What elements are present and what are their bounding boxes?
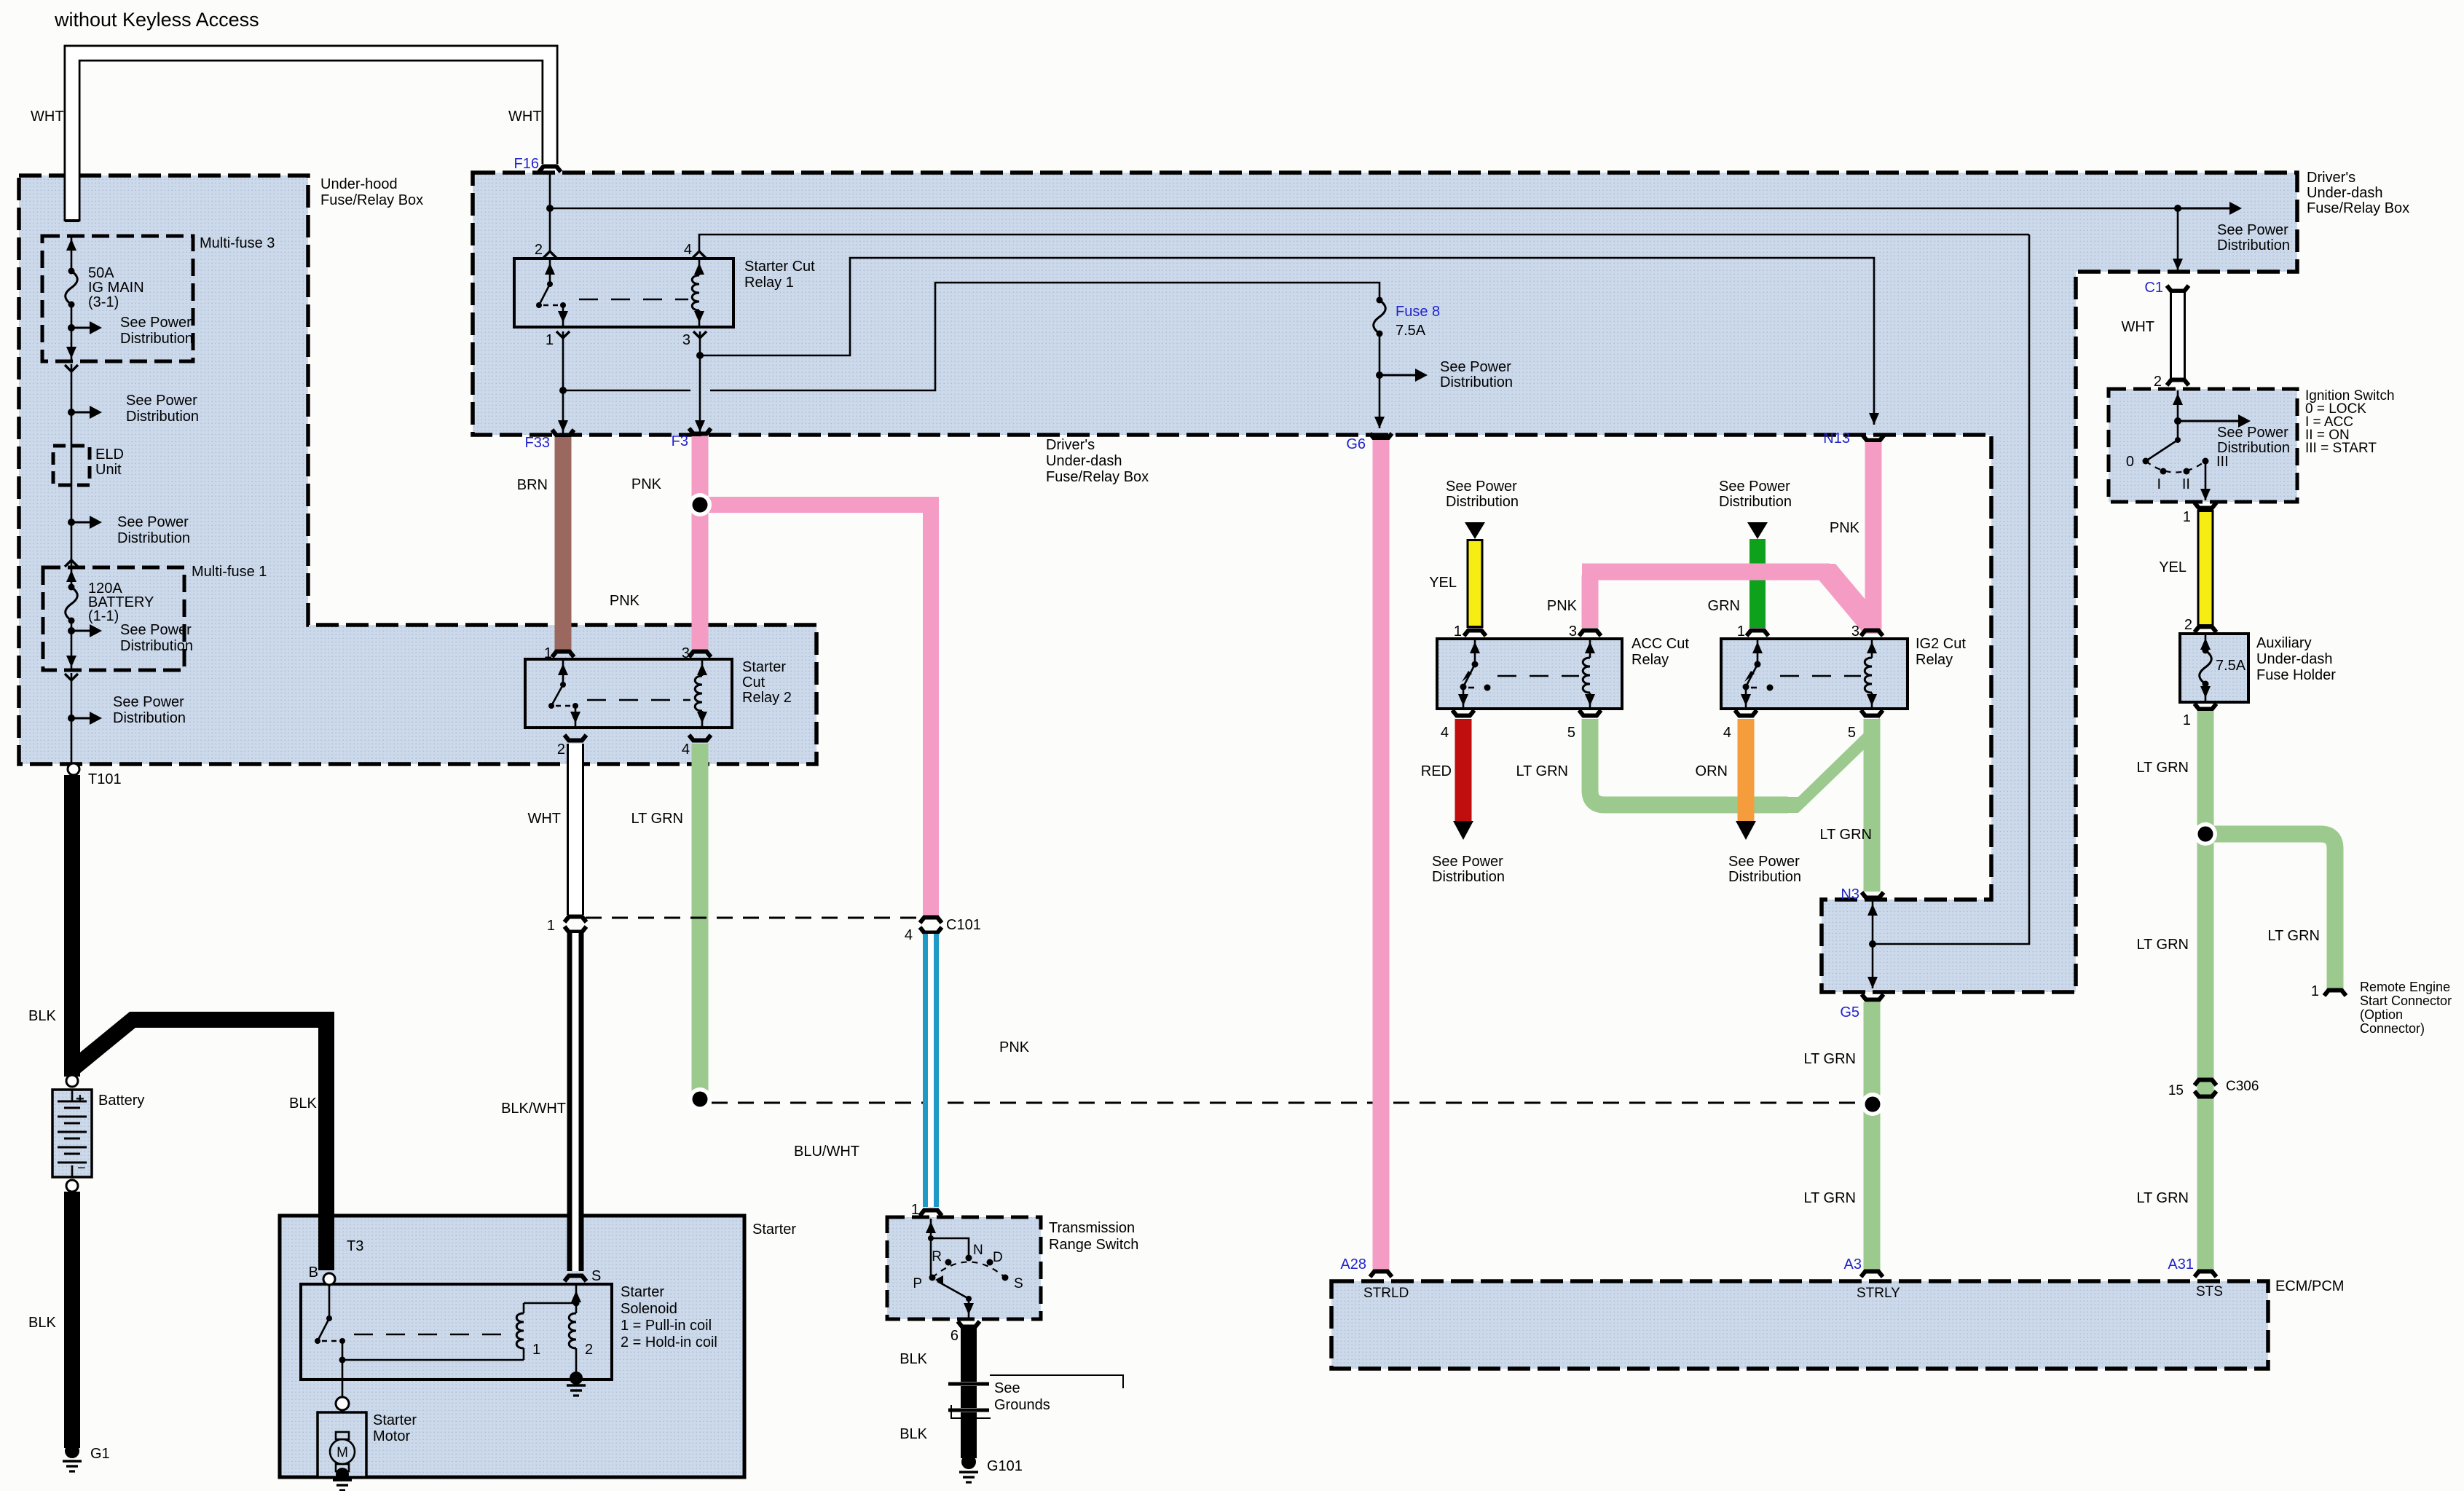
svg-text:D: D [993,1250,1003,1265]
svg-text:Remote Engine: Remote Engine [2360,980,2450,994]
relay2 pin 1 label [544,645,552,661]
wire LT GRN ACC pin5 elbow to IG2 pin5 [1590,717,1880,813]
connector A28 [1340,1256,1392,1277]
svg-text:R: R [932,1249,942,1264]
relay2 pin3 connector [689,652,711,658]
relay2 pin 3 label [682,645,690,661]
svg-text:N13: N13 [1823,430,1850,446]
svg-text:Transmission: Transmission [1049,1220,1135,1236]
svg-text:1: 1 [547,918,555,934]
wire GRN into IG2 pin1 [1749,539,1766,628]
TRS internals [926,1219,1009,1318]
wire Multi-fuse1 to T101 [65,673,78,764]
svg-text:1: 1 [1737,623,1745,640]
junction node on F16 wire [546,205,554,212]
relay2 pin2 connector [564,735,586,741]
wire PNK G6 to A28 [1373,440,1390,1271]
label BLK (TRS lower) [900,1426,927,1442]
IG2 pin 3 label [1851,623,1859,640]
wire WHT relay2 pin2 to C101 [567,744,584,915]
arrow F3 exit [695,420,705,432]
label WHT (right) [508,109,542,125]
svg-text:See: See [994,1380,1020,1396]
Remote Engine Start Connector label [2360,980,2452,1036]
label LT GRN (relay2) [631,811,684,827]
svg-text:See Power: See Power [1446,479,1517,495]
svg-text:LT GRN: LT GRN [2268,928,2321,944]
svg-text:Distribution: Distribution [113,710,186,726]
svg-text:6: 6 [950,1328,959,1344]
svg-text:WHT: WHT [527,811,561,827]
svg-text:Motor: Motor [373,1428,410,1444]
svg-text:Start Connector: Start Connector [2360,994,2452,1008]
label LT GRN (A31 mid) [2137,937,2189,953]
svg-text:4: 4 [684,242,692,258]
svg-text:RED: RED [1421,763,1452,779]
relay1 coil [692,260,704,326]
fuse 120A BATTERY (1-1) [66,567,78,670]
wire N3 to G5 through box [1867,901,1878,988]
relay Starter Cut Relay 1 [514,259,815,327]
label BLU/WHT [794,1144,859,1160]
svg-text:A28: A28 [1340,1256,1366,1272]
svg-text:BRN: BRN [517,477,548,493]
svg-text:IG MAIN: IG MAIN [88,280,144,296]
battery Battery [52,1075,144,1192]
svg-text:Fuse 8: Fuse 8 [1396,304,1440,320]
connector aux pin 2 [2195,627,2216,633]
see power distribution below ORN [1728,854,1801,885]
svg-text:+: + [76,1091,84,1107]
svg-text:(1-1): (1-1) [88,608,119,624]
aux fuse 7.5A [2200,635,2246,701]
svg-text:See Power: See Power [1440,359,1511,375]
wire PNK branch ACC pin3 to IG2 pin3 [1582,564,1881,634]
wire LT GRN IG2 pin5 to N3 [1864,719,1881,892]
see power distribution below RED [1432,854,1505,885]
label S terminal [591,1268,601,1284]
svg-text:STRLY: STRLY [1857,1286,1900,1301]
wire BLK branch to starter B [72,1020,326,1270]
svg-text:1: 1 [2183,509,2191,525]
see power distribution arrow (in Multi-fuse 3) [68,315,193,347]
label WHT (relay2) [527,811,561,827]
svg-text:G1: G1 [90,1446,110,1462]
wire ORN IG2 pin4 down [1736,719,1756,840]
svg-text:Distribution: Distribution [1432,869,1505,885]
svg-text:Fuse/Relay Box: Fuse/Relay Box [2307,200,2409,216]
box Starter [280,1216,796,1477]
connector ignition pin 1 [2195,503,2216,508]
svg-text:Starter: Starter [742,659,786,675]
label 1 (C101 WHT) [547,918,555,934]
Driver's Under-dash Fuse/Relay Box label (below left) [1046,437,1149,485]
svg-text:Multi-fuse 1: Multi-fuse 1 [192,564,267,580]
svg-text:Driver's: Driver's [1046,437,1095,453]
IG2 pin 1 label [1737,623,1745,640]
motor ground [333,1468,352,1490]
junction on PNK wire [0,0,1,1]
ACC pin4 connector [1452,710,1474,716]
relay2 pin1 connector [552,652,574,658]
see power distribution arrow (below ELD) [68,514,190,546]
svg-text:1: 1 [1454,623,1462,640]
svg-text:F33: F33 [525,435,550,451]
junction dot aux branch [2194,822,2217,846]
see power distribution arrow (fuse 8) [1376,359,1513,390]
svg-text:2 = Hold-in coil: 2 = Hold-in coil [621,1334,717,1350]
svg-text:2: 2 [535,242,543,258]
junction dot PNK branch [688,493,712,516]
svg-text:N: N [973,1243,983,1258]
wire RED ACC pin4 down [1453,719,1473,840]
svg-text:BLK: BLK [289,1095,317,1112]
svg-text:WHT: WHT [2121,319,2154,335]
connector G6 [1346,433,1392,452]
junction dot LT GRN to dashed [688,1087,712,1111]
solenoid link dashed [354,1334,510,1336]
ACC pin5 connector [1579,710,1601,716]
wire BLK battery to G1 [64,1192,80,1448]
label 1 (TRS) [911,1202,919,1218]
svg-text:G6: G6 [1346,436,1366,452]
wire LT GRN aux to A31 [2197,711,2214,1271]
wire WHT C1 to ignition switch [2170,293,2186,378]
svg-text:Multi-fuse 3: Multi-fuse 3 [200,235,275,251]
wire N3 junction to column riser [1873,235,2029,944]
Ignition Switch label [2305,388,2395,456]
label PNK (mid) [999,1039,1030,1055]
wire BLK into starter box to B [318,1213,334,1270]
svg-text:III = START: III = START [2305,441,2377,456]
Under-hood Fuse/Relay Box label [320,176,423,208]
svg-text:Fuse/Relay Box: Fuse/Relay Box [1046,469,1149,485]
svg-text:Starter Cut: Starter Cut [744,259,815,275]
wire BLK/WHT into starter box to S [567,1213,584,1271]
connector C1 [2144,280,2189,296]
IG2 pin1 connector [1747,631,1768,637]
svg-text:A31: A31 [2168,1256,2194,1272]
relay2 pin4 connector [689,735,711,741]
svg-text:3: 3 [682,645,690,661]
svg-text:B: B [309,1264,318,1280]
connector A3 [1844,1256,1883,1277]
label GRN [1708,598,1740,614]
label BLK (TRS upper) [900,1351,927,1367]
label WHT (C1) [2121,319,2154,335]
svg-text:III: III [2216,454,2229,470]
svg-text:A3: A3 [1844,1256,1862,1272]
svg-text:15: 15 [2168,1083,2184,1098]
relay1 pin 4 label [684,242,692,258]
svg-text:YEL: YEL [2159,559,2186,575]
ACC coil [1583,640,1595,707]
svg-text:7.5A: 7.5A [1396,323,1426,339]
IG2 pin4 connector [1735,710,1757,716]
svg-text:Distribution: Distribution [1446,494,1519,510]
IG2 link dashed [1780,675,1861,677]
ACC pin 4 label [1441,725,1449,741]
junction node above C1 [2174,205,2181,212]
wire BLK TRS to G101 [961,1328,977,1458]
wire WHT loop from Multi-fuse 3 to F16 [65,53,550,221]
node B terminal [309,1264,335,1285]
svg-text:0: 0 [2126,454,2134,470]
svg-text:C306: C306 [2226,1079,2259,1094]
see power distribution arrow (top right) [2178,202,2290,253]
connector TRS pin 1 [920,1211,942,1216]
connector ignition pin 2 [2167,380,2189,386]
see power distribution arrow (below Multi-fuse 1) [68,694,186,726]
label 1 (aux pin1) [2183,712,2191,728]
wire YEL into ACC pin1 [1467,539,1484,628]
wire YEL ignition to aux fuse holder [2197,510,2214,626]
svg-text:S: S [591,1268,601,1284]
relay1 link dashed [579,299,688,301]
relay2 coil [695,661,707,726]
svg-text:T3: T3 [347,1238,363,1254]
ground G101 [959,1455,1023,1482]
svg-text:ACC Cut: ACC Cut [1631,636,1689,652]
wire LT GRN relay2 pin4 down [692,744,709,1093]
svg-text:50A: 50A [88,265,114,281]
label C101 [946,917,981,933]
label BLK (upper) [28,1008,56,1024]
label PNK (above relay 2) [610,593,640,609]
svg-text:1: 1 [532,1342,540,1358]
connector aux pin 1 [2195,704,2216,709]
svg-text:PNK: PNK [1547,598,1578,614]
Auxiliary Under-dash Fuse Holder box [2180,634,2336,702]
relay IG2 Cut Relay box [1721,636,1966,709]
svg-text:Distribution: Distribution [120,331,193,347]
IG2 pin5 connector [1861,710,1883,716]
svg-text:2: 2 [585,1342,593,1358]
IG2 pin 5 label [1848,725,1856,741]
svg-text:(3-1): (3-1) [88,294,119,310]
relay1 pin 2 label [535,242,543,258]
connector C101 on BLU/WHT wire [920,918,942,933]
box Transmission Range Switch [887,1217,1138,1319]
ACC pin1 connector [1464,631,1486,637]
label PNK (below F3) [631,476,662,492]
label 1 (ignition pin1) [2183,509,2191,525]
label LT GRN (remote branch) [2268,928,2321,944]
svg-text:LT GRN: LT GRN [1516,763,1569,779]
svg-text:Connector): Connector) [2360,1021,2425,1036]
connector N13 [1823,430,1884,446]
label PNK (above ACC pin3) [1547,598,1578,614]
ACC pin 5 label [1567,725,1575,741]
relay2 switch [548,661,580,726]
label RED [1421,763,1452,779]
svg-text:See Power: See Power [2217,425,2288,441]
see power distribution (ignition) [2217,425,2290,456]
svg-text:See Power: See Power [1728,854,1800,870]
wire bus y286 to C1 drop [550,208,2178,210]
connector F33 [525,430,574,451]
svg-text:4: 4 [905,927,913,943]
wire relay1 pin4 bus to column riser [693,235,2029,258]
IG2 switch [1741,640,1774,707]
svg-text:Under-dash: Under-dash [2307,185,2383,201]
Under-hood Fuse/Relay Box (container) [19,176,816,764]
dashed crossover line to G5 wire [712,1102,1859,1104]
svg-text:(Option: (Option [2360,1007,2403,1022]
label WHT (left) [31,109,64,125]
svg-text:3: 3 [1851,623,1859,640]
svg-text:Distribution: Distribution [1440,374,1513,390]
svg-text:Auxiliary: Auxiliary [2256,635,2312,651]
connector TRS pin 6 [958,1321,980,1327]
svg-text:Unit: Unit [95,462,122,478]
wire C1 drop [2173,208,2183,270]
svg-text:BLK: BLK [28,1315,56,1331]
svg-text:1: 1 [546,332,554,348]
svg-text:BLK: BLK [28,1008,56,1024]
svg-text:7.5A: 7.5A [2216,658,2246,674]
svg-text:1: 1 [2311,983,2319,999]
wire relay1 pin1 to F33 [556,331,570,435]
relay2 link dashed [587,699,690,701]
svg-text:3: 3 [682,332,690,348]
connector F3 [672,428,711,449]
svg-text:N3: N3 [1841,886,1859,902]
relay1 switch [536,260,568,326]
svg-text:3: 3 [1569,623,1577,640]
svg-text:PNK: PNK [610,593,640,609]
svg-text:See Power: See Power [126,393,197,409]
IG2 pin3 connector [1861,631,1883,637]
svg-text:GRN: GRN [1708,598,1740,614]
svg-text:STRLD: STRLD [1363,1286,1409,1301]
svg-text:BLK: BLK [900,1426,927,1442]
svg-text:WHT: WHT [508,109,542,125]
label YEL [1429,575,1457,591]
svg-text:Distribution: Distribution [117,530,190,546]
ACC pin 3 label [1569,623,1577,640]
see power distribution arrow (below Multi-fuse 3) [68,393,199,425]
connector C101 on WHT wire [564,917,586,932]
ACC pin3 connector [1579,631,1601,637]
label ORN [1696,763,1728,779]
Driver's Under-dash Fuse/Relay Box (container) [473,173,2297,992]
label LT GRN (A31 lower) [2137,1190,2189,1206]
solenoid switch [315,1285,346,1364]
solenoid hold-in coil 2 [569,1286,593,1377]
svg-text:2: 2 [2184,617,2192,633]
solenoid pull-in coil 1 [342,1303,576,1360]
connector G5 [1840,994,1884,1020]
wire LT GRN branch to remote connector [2205,834,2335,989]
svg-text:F3: F3 [672,433,688,449]
svg-text:LT GRN: LT GRN [1820,827,1873,843]
svg-text:S: S [1014,1276,1023,1291]
svg-text:Relay 2: Relay 2 [742,690,792,706]
svg-text:Distribution: Distribution [126,409,199,425]
wire BLU/WHT C101 to TRS [923,934,939,1207]
wire BRN F33 to relay2 pin1 [555,437,572,650]
ACC pin 1 label [1454,623,1462,640]
label 2 (ignition) [2154,374,2162,390]
ECM/PCM box [1331,1278,2344,1369]
svg-text:Battery: Battery [98,1093,144,1109]
IG2 coil [1865,640,1877,707]
svg-text:Under-dash: Under-dash [1046,453,1122,469]
label 6 (TRS) [950,1328,959,1344]
svg-text:4: 4 [1723,725,1731,741]
svg-text:Fuse Holder: Fuse Holder [2256,667,2336,683]
wire F16 to Starter Cut Relay 1 pin 2 [543,173,556,258]
relay2 pin 2 label [557,741,565,758]
svg-text:Distribution: Distribution [2217,237,2290,253]
Multi-fuse 1 box [43,564,267,670]
svg-text:LT GRN: LT GRN [2137,760,2189,776]
svg-text:5: 5 [1567,725,1575,741]
svg-text:See Power: See Power [2217,222,2288,238]
svg-text:4: 4 [682,741,690,758]
svg-text:Relay 1: Relay 1 [744,275,794,291]
svg-text:Under-hood: Under-hood [320,176,398,192]
svg-text:Starter: Starter [752,1221,796,1238]
svg-text:BLK/WHT: BLK/WHT [501,1101,566,1117]
svg-text:PNK: PNK [631,476,662,492]
see power distribution arrow (in Multi-fuse 1) [68,622,193,654]
wire pin1 junction bus to Fuse 8 [563,283,1379,390]
svg-text:STS: STS [2196,1284,2223,1299]
label LT GRN (G5 lower) [1804,1190,1857,1206]
label 4 (C101) [905,927,913,943]
svg-text:LT GRN: LT GRN [2137,937,2189,953]
svg-text:without Keyless Access: without Keyless Access [54,9,259,31]
wire solenoid to motor [336,1360,349,1432]
svg-text:1 = Pull-in coil: 1 = Pull-in coil [621,1318,712,1334]
svg-text:Grounds: Grounds [994,1397,1050,1413]
svg-text:See Power: See Power [117,514,189,530]
connector F16 [514,156,561,172]
label LT GRN (IG2 pin5) [1820,827,1873,843]
svg-text:C1: C1 [2144,280,2163,296]
label T3 [347,1238,363,1254]
svg-text:Cut: Cut [742,674,765,691]
see grounds connector [948,1375,1123,1418]
svg-text:Fuse/Relay Box: Fuse/Relay Box [320,192,423,208]
svg-text:LT GRN: LT GRN [631,811,684,827]
ignition switch internals [2143,390,2251,500]
svg-text:Under-dash: Under-dash [2256,651,2333,667]
svg-text:See Power: See Power [120,315,192,331]
label LT GRN (G5 upper) [1804,1051,1857,1067]
svg-text:M: M [336,1445,348,1460]
svg-text:G101: G101 [987,1458,1023,1474]
wire relay1 pin3 bus to N13 drop [693,258,1879,435]
svg-text:YEL: YEL [1429,575,1457,591]
wire BLK/WHT C101 to starter S [567,933,584,1272]
Multi-fuse 3 box [42,235,275,361]
dashed line C101 [586,917,919,919]
svg-text:1: 1 [544,645,552,661]
svg-text:ORN: ORN [1696,763,1728,779]
box Starter Solenoid [301,1284,717,1380]
TRS position labels [913,1243,1023,1291]
svg-text:Solenoid: Solenoid [621,1301,677,1317]
svg-text:Driver's: Driver's [2307,170,2355,186]
title [54,9,259,31]
box Starter Motor [318,1412,417,1477]
label BLK (lower) [28,1315,56,1331]
wire PNK branch to C101 [700,505,931,916]
connector N3 [1841,886,1884,902]
